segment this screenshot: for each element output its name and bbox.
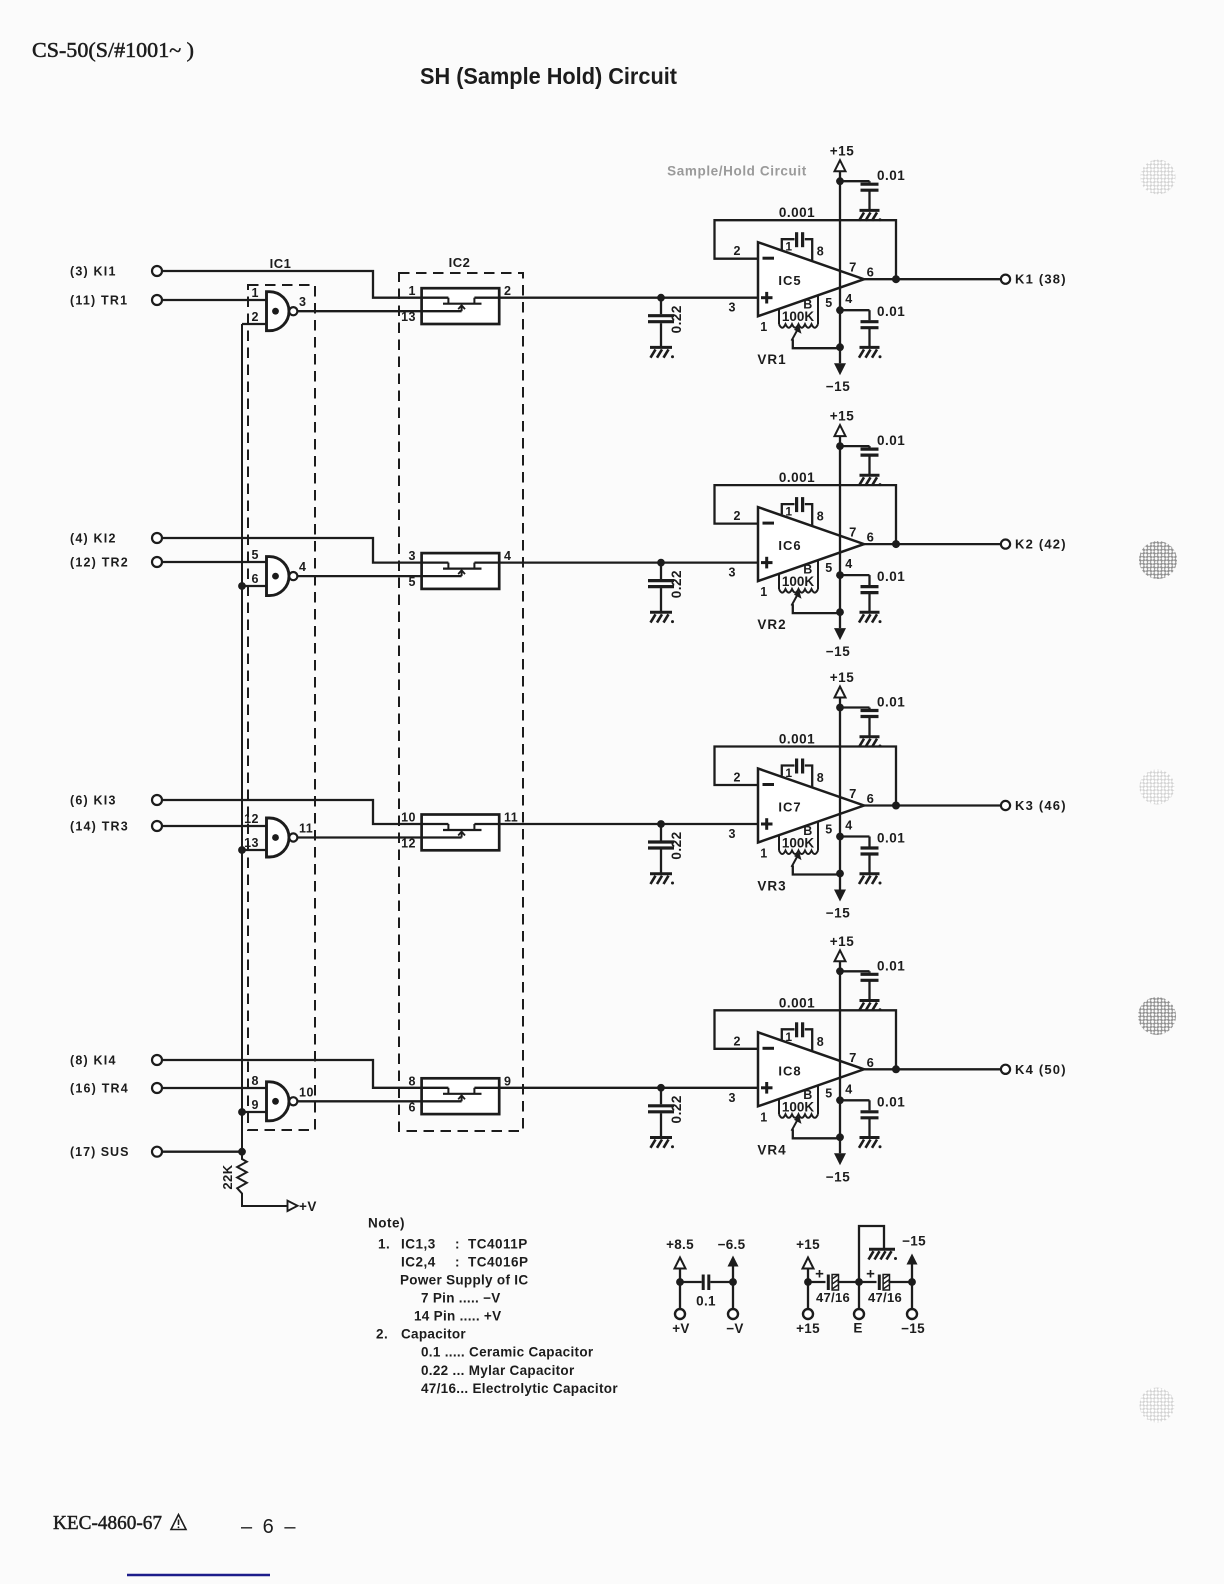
svg-text:−15: −15 (902, 1234, 926, 1249)
svg-text:0.01: 0.01 (877, 433, 905, 448)
svg-text:VR2: VR2 (757, 617, 786, 632)
svg-text:1: 1 (760, 585, 767, 599)
svg-text:5: 5 (825, 823, 832, 837)
svg-text:7: 7 (849, 1050, 857, 1065)
svg-text:(8) KI4: (8) KI4 (70, 1054, 117, 1068)
svg-text:6: 6 (867, 791, 875, 806)
svg-text:+V: +V (299, 1199, 317, 1214)
svg-text:1: 1 (409, 284, 416, 298)
svg-text:4: 4 (504, 549, 511, 563)
svg-text:VR1: VR1 (757, 352, 786, 367)
svg-text:3: 3 (729, 827, 736, 841)
svg-text:12: 12 (401, 837, 416, 851)
svg-text:1: 1 (785, 240, 792, 254)
svg-text:6: 6 (867, 530, 875, 545)
svg-text:−15: −15 (901, 1321, 925, 1336)
svg-text:0.22: 0.22 (669, 1095, 684, 1123)
svg-text:2: 2 (504, 284, 511, 298)
svg-text:11: 11 (504, 811, 518, 825)
svg-text:0.01: 0.01 (877, 695, 905, 710)
svg-text:100K: 100K (782, 836, 815, 851)
svg-text:+8.5: +8.5 (666, 1237, 694, 1252)
svg-text:IC1,3: IC1,3 (401, 1237, 436, 1252)
svg-text:100K: 100K (782, 574, 815, 589)
svg-text:−V: −V (726, 1321, 744, 1336)
svg-text:100K: 100K (782, 309, 815, 324)
svg-text:−15: −15 (826, 644, 850, 659)
svg-text:+: + (815, 1266, 824, 1283)
svg-text:5: 5 (252, 548, 259, 562)
svg-text:0.1 ..... Ceramic Capacitor: 0.1 ..... Ceramic Capacitor (421, 1345, 594, 1360)
svg-text:+15: +15 (796, 1321, 820, 1336)
svg-text:8: 8 (817, 245, 824, 259)
svg-text:9: 9 (252, 1098, 259, 1112)
svg-text:−15: −15 (826, 906, 850, 921)
svg-text:IC2,4: IC2,4 (401, 1255, 436, 1270)
svg-text:1.: 1. (378, 1237, 390, 1252)
svg-text:6: 6 (867, 265, 875, 280)
svg-text:IC6: IC6 (778, 538, 801, 553)
svg-text:0.001: 0.001 (779, 732, 815, 747)
svg-text:0.01: 0.01 (877, 958, 905, 973)
svg-text:SH (Sample Hold) Circuit: SH (Sample Hold) Circuit (420, 63, 677, 89)
svg-text:0.22: 0.22 (669, 305, 684, 333)
svg-text:(17) SUS: (17) SUS (70, 1145, 129, 1159)
svg-text:11: 11 (299, 822, 313, 836)
svg-text:4: 4 (845, 819, 852, 833)
svg-text:(11) TR1: (11) TR1 (70, 294, 128, 308)
svg-text:2: 2 (734, 509, 741, 523)
svg-text:IC2: IC2 (449, 255, 471, 270)
svg-text:+15: +15 (796, 1237, 820, 1252)
svg-text:10: 10 (401, 811, 416, 825)
svg-text:Note): Note) (368, 1216, 405, 1231)
svg-text:IC8: IC8 (778, 1063, 801, 1078)
svg-text:0.22 ... Mylar Capacitor: 0.22 ... Mylar Capacitor (421, 1363, 575, 1378)
svg-text:13: 13 (401, 310, 416, 324)
svg-text:K2 (42): K2 (42) (1015, 537, 1067, 552)
svg-text:1: 1 (760, 847, 767, 861)
svg-text:7: 7 (849, 260, 857, 275)
svg-text:3: 3 (409, 549, 416, 563)
svg-text:7: 7 (849, 525, 857, 540)
svg-text:+15: +15 (830, 409, 854, 424)
svg-text:3: 3 (729, 1091, 736, 1105)
svg-text:Power Supply of IC: Power Supply of IC (400, 1273, 528, 1288)
svg-text:4: 4 (845, 1082, 852, 1096)
svg-text:TC4016P: TC4016P (468, 1255, 529, 1270)
svg-text:6: 6 (409, 1100, 416, 1114)
svg-text:0.001: 0.001 (779, 995, 815, 1010)
svg-text:Capacitor: Capacitor (401, 1327, 466, 1342)
svg-text:0.01: 0.01 (877, 831, 905, 846)
svg-text:VR4: VR4 (757, 1142, 786, 1157)
svg-text:1: 1 (785, 766, 792, 780)
svg-text:8: 8 (409, 1074, 416, 1088)
svg-text:0.001: 0.001 (779, 205, 815, 220)
svg-text:+15: +15 (830, 144, 854, 159)
svg-text:1: 1 (252, 286, 259, 300)
svg-text:13: 13 (244, 836, 259, 850)
svg-text::: : (455, 1237, 460, 1252)
svg-text:6: 6 (252, 572, 259, 586)
svg-text:KEC-4860-67: KEC-4860-67 (53, 1512, 162, 1534)
svg-text:8: 8 (817, 1035, 824, 1049)
svg-text:−6.5: −6.5 (718, 1237, 746, 1252)
svg-text:0.01: 0.01 (877, 304, 905, 319)
svg-text:4: 4 (299, 560, 306, 574)
svg-text:2: 2 (734, 244, 741, 258)
svg-text:3: 3 (729, 301, 736, 315)
svg-text:K3 (46): K3 (46) (1015, 798, 1067, 813)
svg-text:+V: +V (672, 1321, 690, 1336)
svg-text:5: 5 (825, 1086, 832, 1100)
svg-text:7 Pin ..... −V: 7 Pin ..... −V (421, 1291, 501, 1306)
svg-text:0.001: 0.001 (779, 470, 815, 485)
svg-text:E: E (853, 1321, 862, 1336)
svg-text:0.1: 0.1 (696, 1294, 716, 1309)
svg-text:47/16: 47/16 (816, 1290, 850, 1305)
svg-text:(16) TR4: (16) TR4 (70, 1082, 129, 1096)
svg-text:+: + (866, 1266, 875, 1283)
svg-text:8: 8 (817, 771, 824, 785)
svg-text:1: 1 (785, 1030, 792, 1044)
svg-text:0.22: 0.22 (669, 570, 684, 598)
svg-text:2: 2 (734, 771, 741, 785)
svg-text:– 6 –: – 6 – (241, 1516, 296, 1538)
svg-text:CS-50(S/#1001~ ): CS-50(S/#1001~ ) (32, 38, 194, 62)
svg-text:47/16: 47/16 (868, 1290, 902, 1305)
svg-text:8: 8 (252, 1074, 259, 1088)
svg-text:(14) TR3: (14) TR3 (70, 820, 129, 834)
svg-text:0.01: 0.01 (877, 168, 905, 183)
svg-text:100K: 100K (782, 1099, 815, 1114)
svg-text:(4) KI2: (4) KI2 (70, 532, 117, 546)
svg-text:2: 2 (252, 310, 259, 324)
svg-text:14 Pin ..... +V: 14 Pin ..... +V (414, 1309, 501, 1324)
svg-text:4: 4 (845, 292, 852, 306)
svg-text:9: 9 (504, 1074, 511, 1088)
svg-text:12: 12 (244, 812, 259, 826)
svg-text:−15: −15 (826, 379, 850, 394)
svg-text:6: 6 (867, 1055, 875, 1070)
svg-text:0.01: 0.01 (877, 569, 905, 584)
svg-text:−15: −15 (826, 1169, 850, 1184)
svg-text:IC5: IC5 (778, 273, 801, 288)
svg-text:1: 1 (760, 320, 767, 334)
svg-text:K4 (50): K4 (50) (1015, 1062, 1067, 1077)
svg-text:K1 (38): K1 (38) (1015, 272, 1067, 287)
svg-text:+15: +15 (830, 670, 854, 685)
svg-text:(6) KI3: (6) KI3 (70, 794, 117, 808)
svg-text:5: 5 (409, 575, 416, 589)
svg-text:8: 8 (817, 510, 824, 524)
svg-text:5: 5 (825, 561, 832, 575)
svg-text:0.22: 0.22 (669, 831, 684, 859)
svg-text::: : (455, 1255, 460, 1270)
svg-text:+15: +15 (830, 934, 854, 949)
svg-text:IC1: IC1 (270, 256, 292, 271)
svg-text:7: 7 (849, 786, 857, 801)
svg-text:IC7: IC7 (778, 800, 801, 815)
svg-text:2.: 2. (376, 1327, 388, 1342)
svg-text:3: 3 (729, 566, 736, 580)
svg-text:(3) KI1: (3) KI1 (70, 265, 117, 279)
svg-text:1: 1 (785, 505, 792, 519)
svg-text:22K: 22K (220, 1164, 235, 1189)
svg-text:3: 3 (299, 295, 306, 309)
svg-text:1: 1 (760, 1110, 767, 1124)
svg-text:47/16... Electrolytic Capacit: 47/16... Electrolytic Capacitor (421, 1381, 618, 1396)
svg-text:2: 2 (734, 1034, 741, 1048)
svg-text:10: 10 (299, 1085, 314, 1099)
svg-text:0.01: 0.01 (877, 1094, 905, 1109)
svg-text:VR3: VR3 (757, 879, 786, 894)
svg-text:(12) TR2: (12) TR2 (70, 556, 129, 570)
svg-text:5: 5 (825, 296, 832, 310)
svg-text:Sample/Hold Circuit: Sample/Hold Circuit (667, 164, 807, 179)
svg-text:TC4011P: TC4011P (468, 1237, 528, 1252)
svg-text:4: 4 (845, 557, 852, 571)
